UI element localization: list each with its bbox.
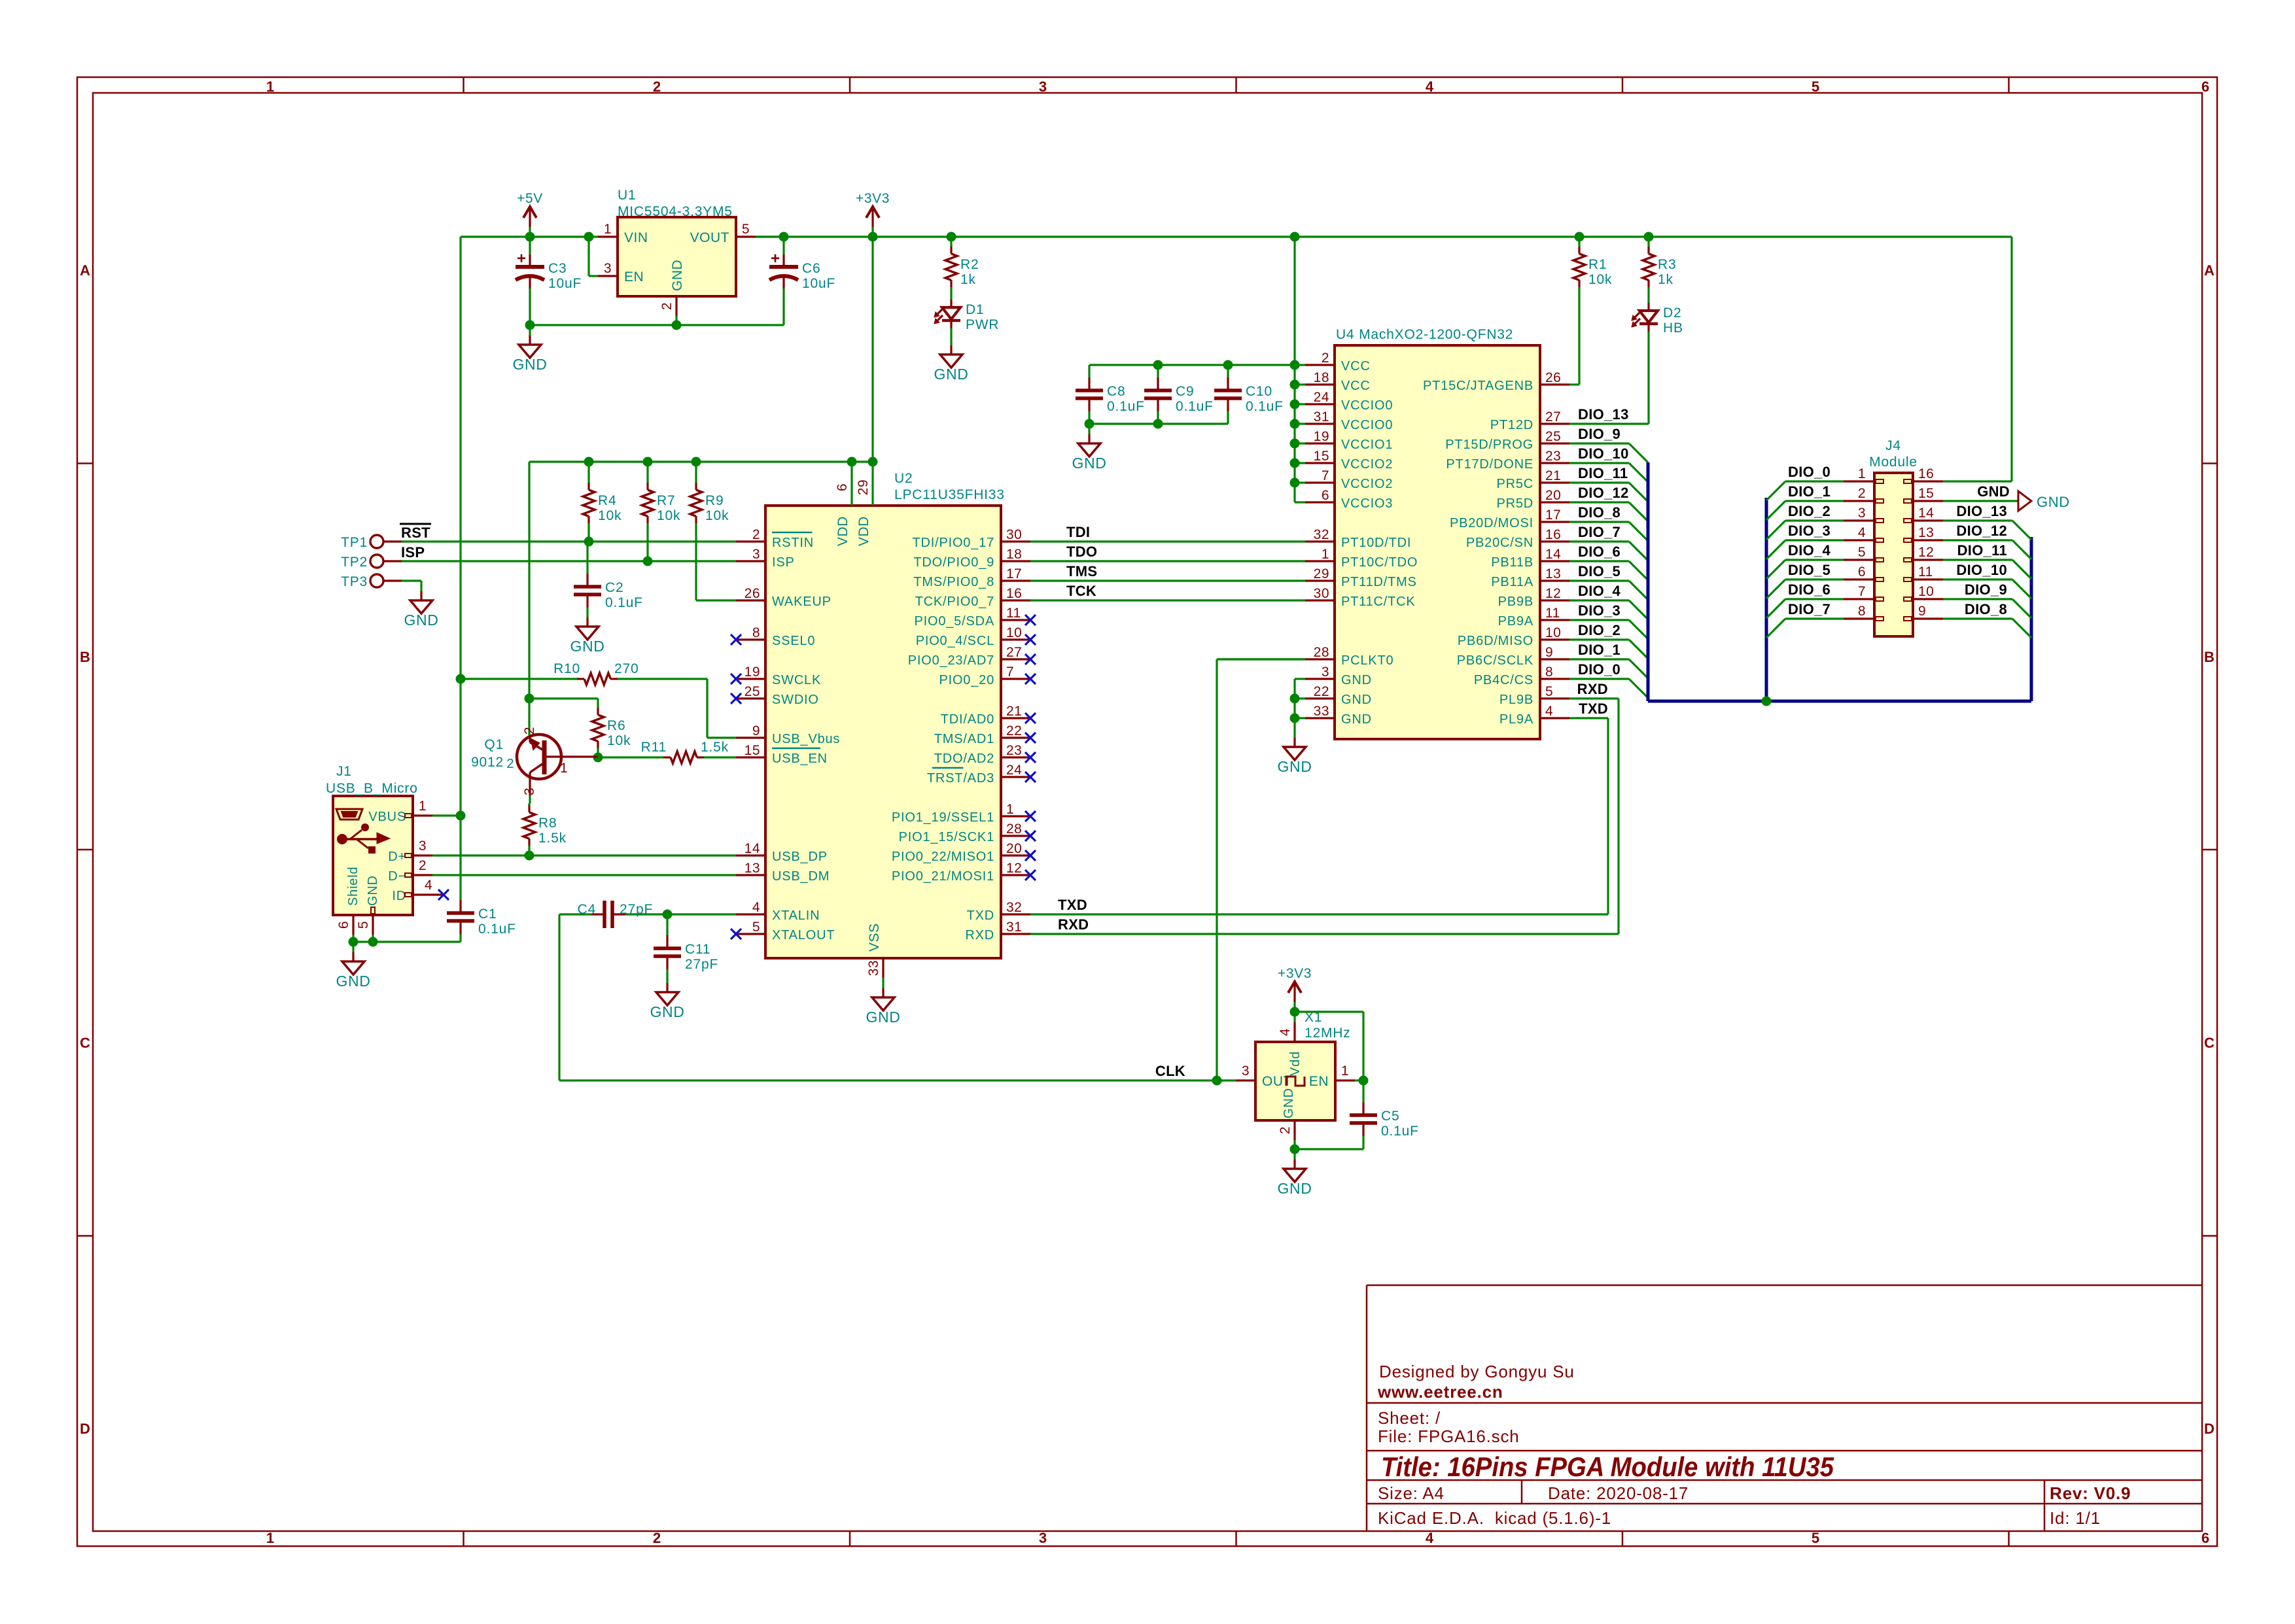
wire DIO_1 net	[1569, 658, 1629, 660]
svg-text:DIO_4: DIO_4	[1578, 583, 1621, 599]
svg-text:3: 3	[522, 787, 537, 795]
svg-text:LPC11U35FHI33: LPC11U35FHI33	[894, 487, 1005, 502]
svg-text:15: 15	[1918, 486, 1934, 501]
bus entry	[2012, 579, 2031, 598]
svg-text:PIO0_21/MOSI1: PIO0_21/MOSI1	[892, 869, 994, 884]
svg-text:USB_DM: USB_DM	[772, 869, 830, 884]
svg-text:GND: GND	[1341, 712, 1372, 727]
wire DIO_1 to J4	[1785, 500, 1844, 502]
svg-text:1: 1	[266, 1530, 274, 1546]
svg-text:DIO_3: DIO_3	[1788, 523, 1831, 539]
svg-text:GND: GND	[404, 612, 439, 629]
junction	[692, 457, 701, 467]
ground	[1278, 1149, 1312, 1197]
svg-text:PR5D: PR5D	[1496, 496, 1533, 511]
bus entry	[1766, 560, 1785, 579]
svg-text:C: C	[80, 1035, 90, 1051]
bus entry	[1629, 542, 1648, 561]
svg-text:PT11C/TCK: PT11C/TCK	[1341, 595, 1416, 609]
svg-text:9: 9	[1918, 604, 1926, 619]
svg-text:1: 1	[419, 799, 427, 814]
connector J1 USB_B_Micro	[326, 764, 449, 935]
svg-text:D: D	[2204, 1421, 2215, 1437]
svg-text:R3: R3	[1658, 257, 1676, 272]
junction	[1290, 1145, 1300, 1154]
svg-text:TP2: TP2	[341, 555, 368, 570]
svg-text:+5V: +5V	[517, 191, 543, 206]
junction	[1290, 458, 1300, 468]
svg-text:GND: GND	[2037, 494, 2070, 510]
capacitor C4	[559, 901, 667, 928]
wire RST net	[402, 540, 736, 542]
svg-text:6: 6	[1858, 564, 1866, 579]
svg-text:18: 18	[1314, 370, 1329, 385]
svg-text:4: 4	[1545, 704, 1553, 719]
ground	[570, 607, 605, 655]
svg-text:1: 1	[604, 222, 612, 237]
svg-text:DIO_5: DIO_5	[1578, 563, 1621, 579]
resistor R1	[1573, 237, 1612, 385]
svg-text:DIO_0: DIO_0	[1578, 661, 1621, 678]
svg-text:27: 27	[1545, 409, 1561, 424]
LED D2	[1632, 303, 1683, 424]
svg-text:VCC: VCC	[1341, 379, 1371, 393]
wire U1 EN feed	[589, 237, 598, 276]
title block frame	[1367, 1285, 2202, 1531]
svg-text:R11: R11	[641, 740, 667, 755]
svg-text:10uF: 10uF	[548, 276, 582, 291]
svg-text:C4: C4	[578, 902, 596, 917]
svg-text:20: 20	[1545, 488, 1561, 503]
svg-text:31: 31	[1314, 409, 1329, 424]
svg-text:1k: 1k	[1658, 272, 1673, 287]
svg-text:File: FPGA16.sch: File: FPGA16.sch	[1378, 1426, 1520, 1446]
test point TP3	[341, 574, 402, 589]
svg-text:2: 2	[659, 302, 674, 310]
bus entry	[1629, 640, 1648, 659]
connector J4 Module	[1844, 438, 1943, 636]
svg-text:R10: R10	[553, 661, 580, 676]
label DIO_0	[1578, 661, 1621, 678]
svg-text:7: 7	[1858, 584, 1866, 599]
wire DIO_9 to J4	[1943, 598, 2012, 600]
svg-text:GND: GND	[513, 356, 548, 373]
title block sheet	[1378, 1408, 1441, 1428]
svg-text:PT10D/TDI: PT10D/TDI	[1341, 536, 1411, 550]
junction	[525, 232, 535, 242]
junction	[584, 457, 594, 467]
wire J1 shield/gnd down	[353, 935, 373, 942]
wire DIO_12 to J4	[1943, 539, 2012, 541]
svg-text:14: 14	[1545, 547, 1561, 562]
wire VCC pin	[1295, 403, 1305, 405]
bus entry	[2012, 599, 2031, 618]
label CLK	[1155, 1063, 1185, 1079]
title block rev	[2050, 1483, 2131, 1503]
svg-text:VDD: VDD	[835, 516, 850, 546]
svg-text:12MHz: 12MHz	[1305, 1026, 1351, 1041]
svg-text:VCC: VCC	[1341, 359, 1371, 373]
svg-text:RSTIN: RSTIN	[772, 536, 814, 550]
svg-text:6: 6	[1322, 488, 1329, 503]
svg-text:PB11B: PB11B	[1491, 555, 1533, 570]
label DIO_8	[1965, 601, 2007, 617]
svg-text:8: 8	[1858, 604, 1866, 619]
svg-text:DIO_9: DIO_9	[1965, 581, 2007, 598]
wire DIO_12 net	[1569, 501, 1629, 503]
svg-text:J4: J4	[1885, 438, 1901, 453]
label DIO_10	[1578, 445, 1629, 462]
svg-text:5: 5	[752, 920, 760, 935]
label GND	[1977, 483, 2010, 500]
bus entry	[1629, 443, 1648, 462]
svg-text:C10: C10	[1246, 384, 1272, 399]
ground	[650, 973, 685, 1020]
svg-text:5: 5	[1545, 684, 1553, 699]
svg-text:TMS/AD1: TMS/AD1	[934, 732, 994, 746]
svg-text:D: D	[80, 1421, 90, 1437]
svg-text:TCK: TCK	[1066, 583, 1096, 599]
svg-text:DIO_8: DIO_8	[1578, 504, 1621, 521]
junction	[847, 457, 857, 467]
svg-text:Date: 2020-08-17: Date: 2020-08-17	[1548, 1483, 1689, 1503]
svg-text:1: 1	[1341, 1063, 1349, 1079]
svg-text:D1: D1	[966, 302, 984, 317]
svg-text:DIO_10: DIO_10	[1578, 445, 1629, 462]
svg-text:TRST/AD3: TRST/AD3	[927, 771, 994, 786]
svg-text:10k: 10k	[705, 508, 729, 523]
svg-text:1: 1	[560, 761, 568, 776]
svg-text:3: 3	[604, 261, 612, 276]
resistor R7	[642, 462, 680, 561]
svg-text:VOUT: VOUT	[690, 230, 729, 245]
svg-text:GND: GND	[570, 638, 605, 655]
capacitor C9	[1144, 365, 1214, 424]
wire VBUS to +5V vertical	[432, 814, 461, 816]
svg-text:DIO_13: DIO_13	[1956, 503, 2007, 519]
label DIO_13	[1956, 503, 2007, 519]
bus horizontal	[1648, 700, 2031, 703]
svg-text:GND: GND	[1341, 673, 1372, 687]
bus entry	[1629, 659, 1648, 678]
svg-text:6: 6	[2201, 1530, 2209, 1546]
svg-text:10: 10	[1918, 584, 1934, 599]
wire DIO_2 to J4	[1785, 519, 1844, 521]
power +3V3	[856, 191, 890, 237]
svg-text:TCK/PIO0_7: TCK/PIO0_7	[915, 595, 994, 609]
svg-text:32: 32	[1314, 527, 1329, 542]
svg-text:29: 29	[856, 479, 871, 495]
svg-text:DIO_5: DIO_5	[1788, 562, 1831, 578]
svg-text:4: 4	[1426, 78, 1434, 95]
svg-text:VDD: VDD	[856, 516, 871, 546]
svg-text:C1: C1	[478, 907, 497, 922]
wire collector to R8	[529, 795, 531, 803]
svg-text:C6: C6	[802, 261, 820, 276]
svg-text:DIO_8: DIO_8	[1965, 601, 2007, 617]
svg-text:PT12D: PT12D	[1490, 418, 1533, 432]
wire TCK net	[1030, 599, 1305, 601]
svg-text:Q1: Q1	[484, 737, 504, 752]
svg-text:CLK: CLK	[1155, 1063, 1185, 1079]
svg-text:DIO_11: DIO_11	[1957, 542, 2007, 559]
svg-text:4: 4	[425, 878, 432, 893]
svg-text:Id: 1/1: Id: 1/1	[2050, 1508, 2101, 1528]
junction	[456, 811, 466, 821]
svg-text:RXD: RXD	[965, 928, 994, 942]
junction	[779, 232, 789, 242]
svg-text:15: 15	[1314, 449, 1329, 464]
wire DIO_11 net	[1569, 481, 1629, 483]
svg-text:USB_Vbus: USB_Vbus	[772, 732, 840, 746]
wire R10 to USB_Vbus pin9	[707, 679, 736, 738]
bus entry	[1629, 679, 1648, 698]
svg-text:D2: D2	[1663, 305, 1681, 320]
bus entry	[1766, 540, 1785, 559]
resistor R9	[690, 462, 729, 600]
label DIO_2	[1578, 622, 1621, 638]
svg-text:PIO0_20: PIO0_20	[939, 673, 994, 687]
label DIO_8	[1578, 504, 1621, 521]
svg-text:WAKEUP: WAKEUP	[772, 595, 832, 609]
svg-text:2: 2	[1322, 351, 1329, 366]
svg-text:PIO1_19/SSEL1: PIO1_19/SSEL1	[892, 810, 994, 825]
capacitor C8	[1076, 365, 1145, 424]
svg-text:DIO_7: DIO_7	[1578, 524, 1621, 540]
svg-text:VCCIO0: VCCIO0	[1341, 398, 1393, 413]
wire VCC pin	[1295, 462, 1305, 464]
svg-text:A: A	[80, 262, 90, 279]
wire VCC pin	[1295, 364, 1305, 366]
label DIO_9	[1578, 426, 1621, 442]
wire DIO_9 net	[1569, 442, 1629, 444]
LED D1	[934, 300, 999, 335]
svg-text:TXD: TXD	[967, 908, 994, 923]
wire U4 GND tie	[1295, 679, 1305, 727]
label DIO_7	[1788, 601, 1831, 617]
wire D2 to pin27 DIO_13	[1569, 423, 1649, 424]
bus entry	[2012, 540, 2031, 559]
svg-text:PB6D/MISO: PB6D/MISO	[1458, 634, 1533, 648]
svg-text:1: 1	[1322, 547, 1329, 562]
svg-text:8: 8	[752, 625, 760, 640]
svg-text:C9: C9	[1176, 384, 1194, 399]
svg-text:PIO0_23/AD7: PIO0_23/AD7	[908, 653, 994, 668]
wire DIO_0 net	[1569, 678, 1629, 680]
svg-text:GND: GND	[934, 366, 969, 383]
oscillator X1 12MHz	[1236, 1010, 1355, 1140]
wire VCC pin	[1295, 501, 1305, 503]
svg-text:PR5C: PR5C	[1496, 477, 1533, 491]
svg-text:3: 3	[1858, 506, 1866, 521]
svg-text:0.1uF: 0.1uF	[1176, 399, 1214, 414]
svg-text:DIO_12: DIO_12	[1578, 485, 1629, 501]
bus DIO vertical left	[1647, 462, 1650, 701]
junction	[1290, 694, 1300, 704]
svg-text:C3: C3	[548, 261, 567, 276]
svg-text:VIN: VIN	[624, 230, 648, 245]
wire DIO_3 net	[1569, 619, 1629, 621]
svg-text:DIO_12: DIO_12	[1956, 523, 2007, 539]
svg-text:31: 31	[1006, 920, 1022, 935]
svg-text:ISP: ISP	[401, 544, 425, 561]
junction	[1290, 439, 1300, 449]
bus entry	[1629, 463, 1648, 482]
svg-text:9: 9	[752, 723, 760, 738]
svg-text:TMS/PIO0_8: TMS/PIO0_8	[913, 575, 994, 589]
label DIO_7	[1578, 524, 1621, 540]
wire DIO_3 to J4	[1785, 539, 1844, 541]
svg-text:PT10C/TDO: PT10C/TDO	[1341, 555, 1418, 570]
label TDO	[1066, 544, 1097, 560]
test point TP2	[341, 555, 402, 570]
label DIO_3	[1788, 523, 1831, 539]
svg-text:DIO_10: DIO_10	[1956, 562, 2007, 578]
title block id	[2050, 1508, 2101, 1528]
bus J4 right vertical	[2030, 537, 2033, 701]
label DIO_1	[1578, 642, 1621, 658]
svg-text:U4 MachXO2-1200-QFN32: U4 MachXO2-1200-QFN32	[1336, 327, 1513, 342]
svg-text:32: 32	[1006, 900, 1022, 915]
svg-text:10: 10	[1545, 625, 1561, 640]
wire D- net	[432, 874, 736, 876]
svg-text:3: 3	[1242, 1063, 1250, 1079]
svg-text:J1: J1	[336, 764, 352, 779]
svg-text:4: 4	[1426, 1530, 1434, 1546]
svg-text:DIO_1: DIO_1	[1578, 642, 1621, 658]
svg-text:24: 24	[1006, 763, 1022, 778]
svg-text:10k: 10k	[657, 508, 680, 523]
resistor R10	[461, 661, 707, 685]
junction	[663, 910, 673, 920]
capacitor C3	[516, 237, 582, 325]
label ISP	[401, 544, 425, 561]
wire EN tie top	[1295, 1012, 1363, 1080]
wire GND under U1	[530, 324, 784, 326]
svg-text:DIO_4: DIO_4	[1788, 542, 1831, 559]
svg-text:PT17D/DONE: PT17D/DONE	[1446, 457, 1533, 472]
wire VCC pin	[1295, 442, 1305, 444]
svg-text:2: 2	[1858, 486, 1866, 501]
svg-text:R1: R1	[1588, 257, 1607, 272]
svg-text:1.5k: 1.5k	[538, 831, 567, 846]
bus entry	[1629, 522, 1648, 541]
label DIO_0	[1788, 464, 1831, 480]
svg-text:27pF: 27pF	[620, 902, 653, 917]
label DIO_10	[1956, 562, 2007, 578]
svg-text:TMS: TMS	[1066, 563, 1097, 579]
svg-text:TXD: TXD	[1058, 897, 1087, 913]
wire DIO_5 to J4	[1785, 578, 1844, 580]
svg-text:GND: GND	[1072, 455, 1107, 472]
svg-text:0.1uF: 0.1uF	[1381, 1124, 1419, 1139]
transistor Q1 9012	[471, 727, 598, 795]
svg-text:B: B	[80, 649, 90, 665]
title block comment: Designed by Gongyu Su	[1379, 1362, 1575, 1381]
junction	[525, 320, 535, 330]
svg-text:PT15D/PROG: PT15D/PROG	[1445, 438, 1533, 452]
svg-text:GND: GND	[1341, 693, 1372, 707]
junction	[1290, 232, 1300, 242]
svg-text:VSS: VSS	[867, 923, 882, 952]
label DIO_11	[1578, 465, 1628, 481]
svg-text:11: 11	[1545, 606, 1560, 621]
svg-text:DIO_11: DIO_11	[1578, 465, 1628, 481]
wire RXD net	[1030, 699, 1619, 934]
junction	[525, 851, 534, 861]
svg-text:DIO_1: DIO_1	[1788, 483, 1831, 500]
svg-text:PWR: PWR	[966, 317, 999, 332]
label DIO_5	[1578, 563, 1621, 579]
wire VCC pin	[1295, 481, 1305, 483]
svg-text:TP1: TP1	[341, 535, 368, 550]
label DIO_13	[1578, 406, 1629, 423]
svg-text:D−: D−	[388, 869, 406, 884]
svg-text:13: 13	[745, 861, 760, 876]
svg-text:15: 15	[745, 743, 760, 758]
svg-text:Rev: V0.9: Rev: V0.9	[2050, 1483, 2131, 1503]
svg-text:EN: EN	[624, 269, 644, 285]
svg-text:U2: U2	[894, 471, 913, 486]
svg-text:3: 3	[419, 838, 427, 854]
capacitor C1	[447, 816, 516, 942]
wire +5V rail	[461, 235, 598, 237]
svg-text:PL9A: PL9A	[1499, 712, 1533, 727]
test point TP1	[341, 535, 402, 550]
junction	[584, 537, 594, 547]
svg-text:1: 1	[1006, 802, 1014, 817]
svg-text:VCCIO1: VCCIO1	[1341, 438, 1393, 452]
power +3V3	[1278, 966, 1312, 1012]
svg-text:GND: GND	[1278, 1180, 1312, 1197]
regulator U1 MIC5504-3.3YM5	[598, 188, 756, 316]
svg-text:26: 26	[745, 586, 760, 601]
svg-text:XTALOUT: XTALOUT	[772, 928, 835, 942]
svg-text:DIO_7: DIO_7	[1788, 601, 1831, 617]
svg-text:PIO1_15/SCK1: PIO1_15/SCK1	[899, 830, 994, 844]
svg-text:9: 9	[1545, 645, 1553, 660]
svg-text:14: 14	[745, 841, 760, 856]
svg-text:+: +	[771, 250, 780, 268]
svg-text:30: 30	[1006, 527, 1022, 542]
svg-text:270: 270	[614, 661, 639, 676]
junction	[1575, 232, 1585, 242]
junction	[1212, 1076, 1222, 1086]
label RST	[400, 524, 431, 541]
svg-text:TDI/PIO0_17: TDI/PIO0_17	[912, 536, 994, 550]
bus entry	[2012, 521, 2031, 540]
junction	[1223, 360, 1233, 370]
svg-text:7: 7	[1006, 665, 1014, 680]
svg-text:C2: C2	[605, 580, 623, 595]
svg-text:2: 2	[653, 78, 661, 95]
label DIO_2	[1788, 503, 1831, 519]
svg-text:A: A	[2204, 262, 2215, 279]
wire DIO_4 to J4	[1785, 559, 1844, 561]
bus entry	[1766, 599, 1785, 618]
svg-text:U1: U1	[618, 188, 636, 203]
junction	[643, 557, 653, 566]
ground	[866, 978, 901, 1026]
svg-text:Module: Module	[1869, 455, 1918, 470]
title block file	[1378, 1426, 1520, 1446]
svg-text:1: 1	[266, 78, 274, 95]
svg-text:GND: GND	[1278, 758, 1312, 775]
svg-text:11: 11	[1918, 564, 1933, 579]
svg-text:12: 12	[1918, 545, 1934, 560]
svg-text:2: 2	[653, 1530, 661, 1546]
svg-text:4: 4	[752, 900, 760, 915]
